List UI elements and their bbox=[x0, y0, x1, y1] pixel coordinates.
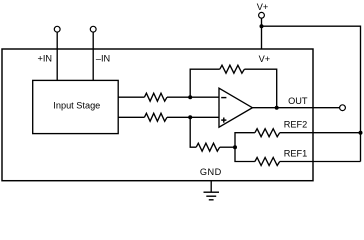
op-amp minus pin mark bbox=[221, 97, 226, 99]
feedback resistor bbox=[220, 65, 245, 73]
node REF divider bbox=[233, 145, 237, 149]
svg-text:Input Stage: Input Stage bbox=[53, 100, 100, 110]
REF1 branch wire bbox=[235, 147, 255, 161]
svg-text:+IN: +IN bbox=[38, 54, 53, 64]
output wire bbox=[252, 107, 339, 109]
svg-text:REF1: REF1 bbox=[284, 148, 308, 158]
V+ rail wire bbox=[262, 26, 361, 161]
svg-text:–IN: –IN bbox=[96, 54, 110, 64]
op-amp U1 bbox=[219, 88, 252, 127]
wire plus path bbox=[118, 116, 144, 118]
wire V+ down to boundary bbox=[261, 18, 263, 49]
node minus input bbox=[188, 95, 192, 99]
svg-text:REF2: REF2 bbox=[284, 119, 308, 129]
input stage block bbox=[33, 80, 119, 133]
resistor REF2 bbox=[255, 129, 280, 137]
OUT terminal bbox=[340, 105, 346, 111]
-IN terminal bbox=[90, 26, 96, 32]
resistor REF1 bbox=[255, 158, 280, 166]
+IN terminal bbox=[54, 26, 60, 32]
ground symbol bbox=[210, 181, 212, 192]
node output bbox=[275, 106, 279, 110]
wire +IN to input stage bbox=[56, 32, 58, 80]
node REF2 V+ rail bbox=[359, 131, 363, 135]
node V+ bbox=[260, 24, 264, 28]
REF2 branch wire bbox=[235, 133, 255, 148]
V+ terminal bbox=[259, 12, 265, 18]
resistor minus path bbox=[144, 93, 167, 101]
wire minus path bbox=[118, 96, 144, 98]
outer IC boundary bbox=[2, 49, 313, 181]
feedback wire bbox=[190, 69, 220, 97]
wire -IN to input stage bbox=[92, 32, 94, 80]
svg-text:GND: GND bbox=[200, 167, 222, 177]
wire plus node to REF divider bbox=[190, 117, 196, 147]
node plus input bbox=[188, 115, 192, 119]
svg-text:V+: V+ bbox=[259, 54, 271, 64]
op-amp plus pin mark bbox=[221, 119, 226, 121]
svg-text:V+: V+ bbox=[257, 2, 269, 12]
svg-text:OUT: OUT bbox=[288, 96, 308, 106]
resistor R4 bbox=[196, 143, 220, 151]
resistor plus path bbox=[144, 113, 167, 121]
